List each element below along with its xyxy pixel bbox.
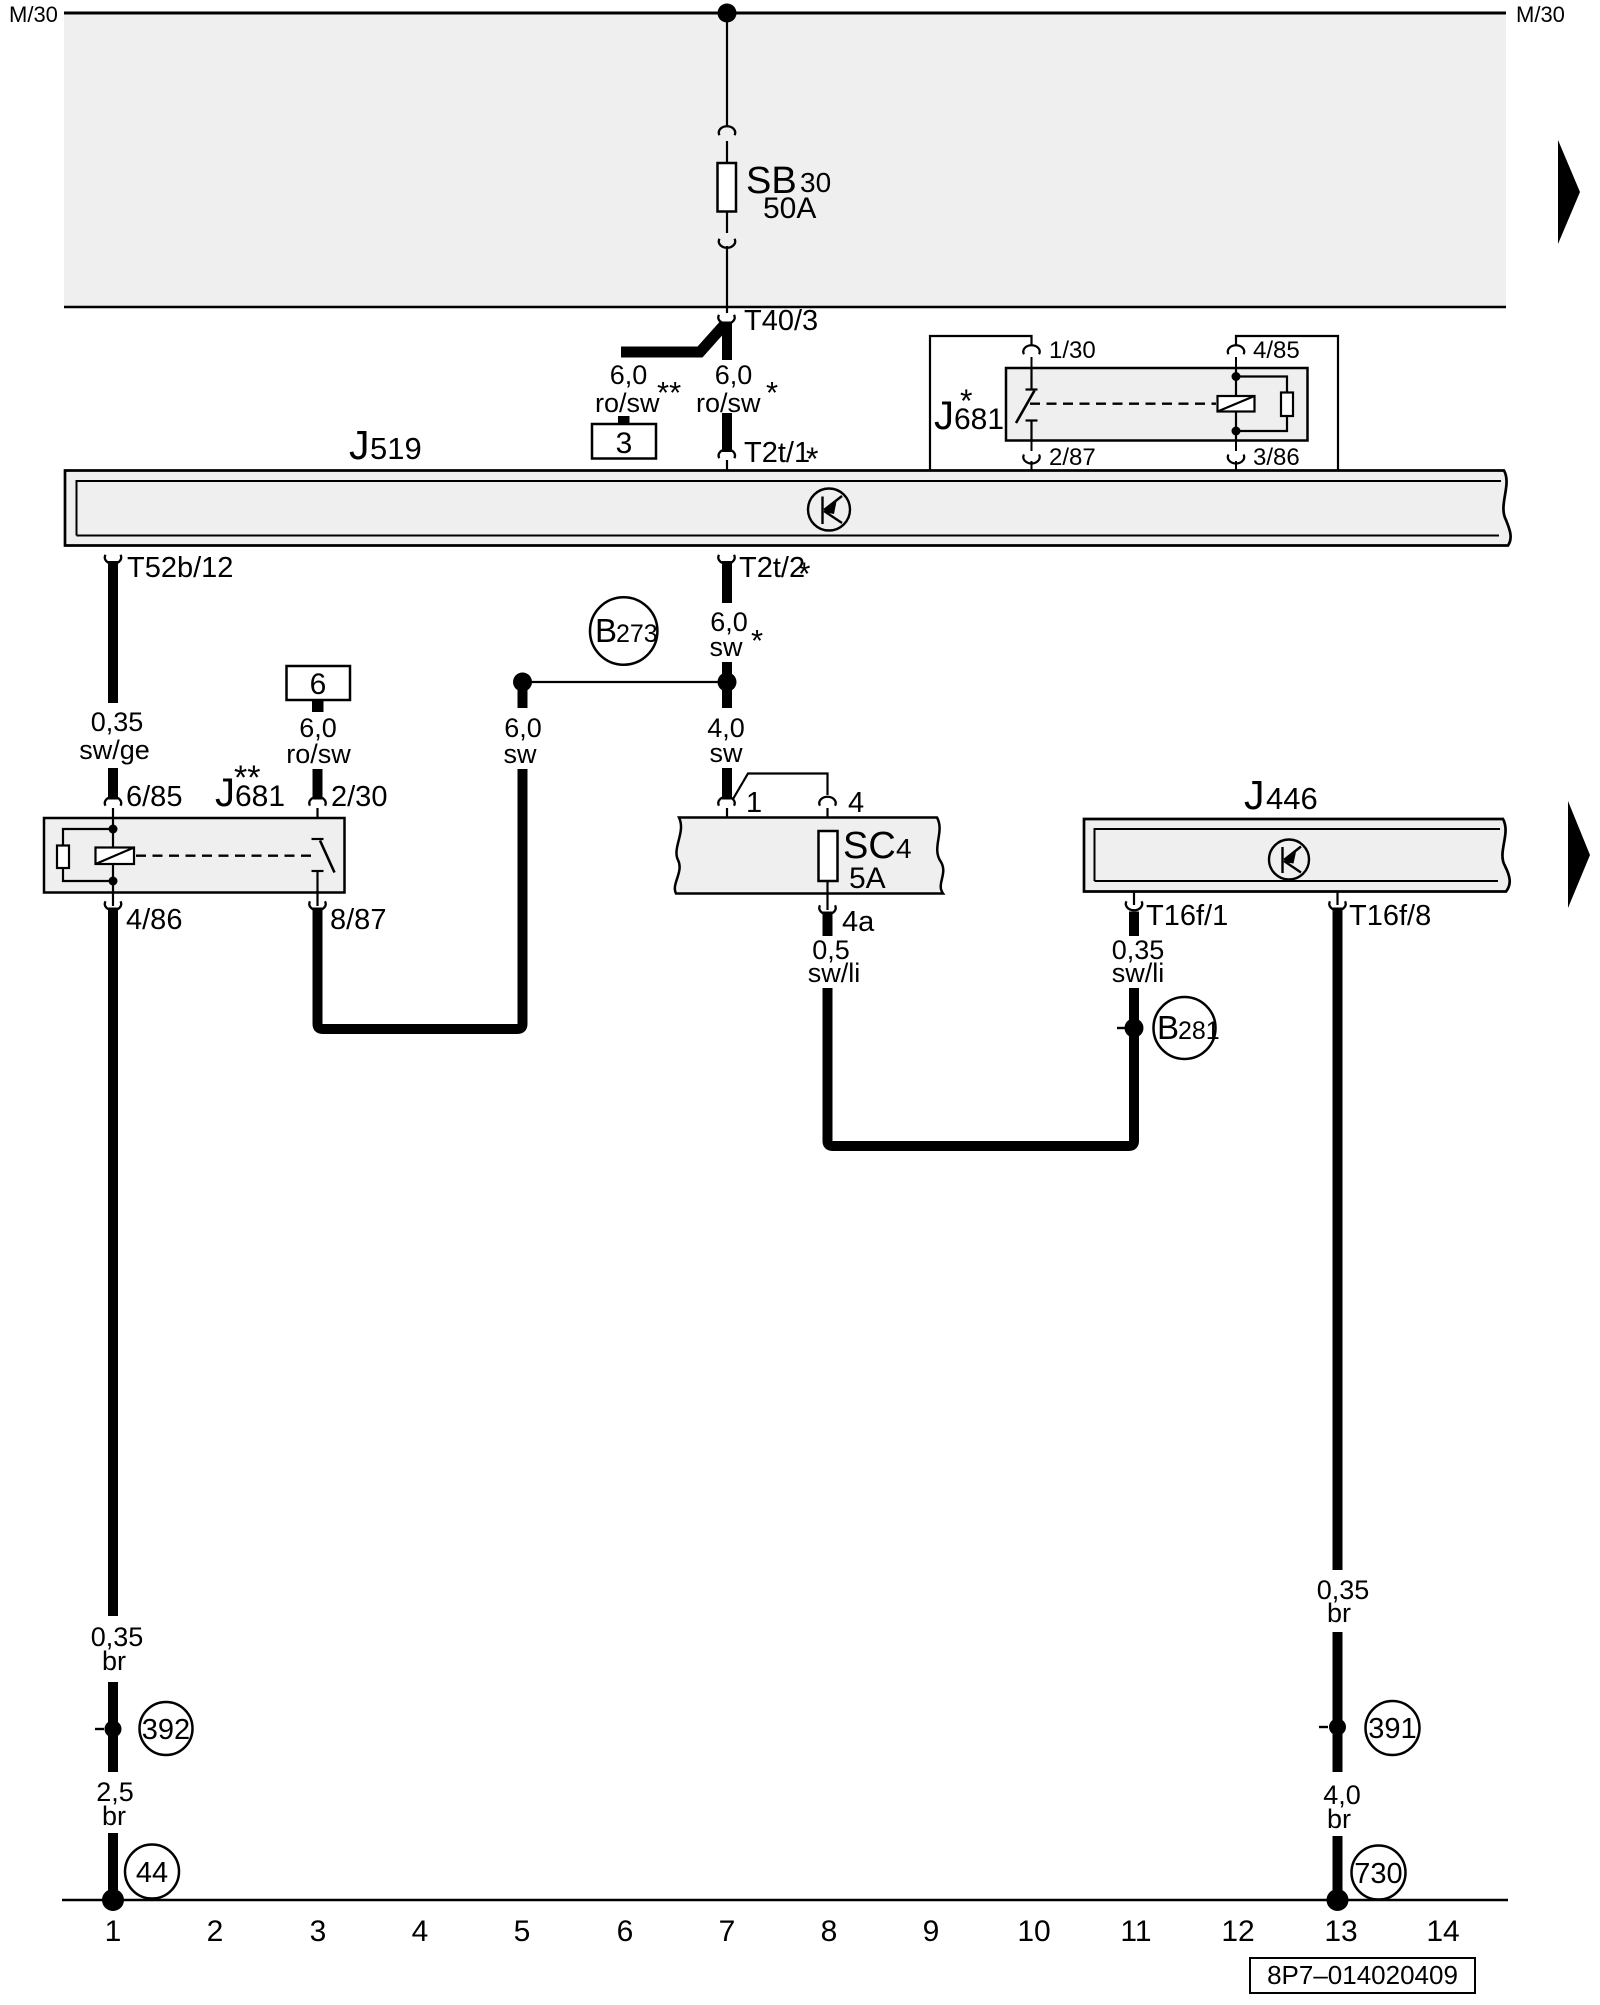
- junction dot 391: [1319, 1726, 1328, 1728]
- wire top rail M/30: [64, 12, 1506, 15]
- junction dot B281: [1117, 1027, 1126, 1029]
- svg-text:9: 9: [923, 1915, 940, 1948]
- K symbol in J519: [808, 489, 850, 531]
- wire 4,0 sw to fuse SC4: [722, 768, 732, 800]
- svg-text:1: 1: [746, 787, 762, 819]
- svg-text:J: J: [215, 771, 235, 815]
- svg-text:sw/li: sw/li: [1112, 958, 1165, 988]
- svg-text:br: br: [102, 1801, 126, 1831]
- svg-text:2: 2: [207, 1915, 224, 1948]
- svg-text:*: *: [766, 375, 778, 410]
- wire bracket pin1 to pin4: [733, 774, 828, 800]
- svg-text:br: br: [102, 1646, 126, 1676]
- section reference box 3: [592, 424, 656, 459]
- terminal T2t/1 arc: [719, 449, 735, 458]
- drawing number box: [1250, 1958, 1475, 1993]
- current track numbers: [105, 1915, 1460, 1948]
- wire 6,0 ro/sw* to T2t/1: [722, 413, 732, 452]
- svg-text:8P7–014020409: 8P7–014020409: [1267, 1960, 1458, 1990]
- wire 0,35 sw/ge upper: [108, 561, 118, 703]
- svg-text:*: *: [798, 556, 810, 592]
- wire 6,0 sw upper segment to junction: [518, 682, 528, 708]
- section reference box 6: [287, 666, 351, 700]
- svg-text:4a: 4a: [842, 906, 875, 938]
- fuse holder SC4 box: [675, 818, 943, 894]
- ground connection 392 circle: [140, 1702, 193, 1755]
- svg-text:ro/sw: ro/sw: [595, 388, 660, 418]
- svg-text:3: 3: [310, 1915, 327, 1948]
- svg-text:ro/sw: ro/sw: [286, 739, 351, 769]
- wire 0,35 sw/li upper stub: [1129, 912, 1139, 937]
- wire 0,5 sw/li upper: [823, 912, 833, 937]
- fuse SC4 body: [819, 831, 838, 881]
- pin 4/85 arc: [1228, 345, 1244, 354]
- svg-text:SC: SC: [843, 825, 896, 867]
- wire 0,35 br from 4/86 down: [108, 908, 118, 1617]
- svg-text:4: 4: [896, 833, 912, 864]
- relay J681 ** coil circuit: [57, 818, 134, 893]
- svg-text:44: 44: [136, 1857, 168, 1889]
- wire 6,0 ro/sw to 2/30: [313, 769, 323, 800]
- wire U-shape 8/87 to junction x523: [318, 769, 523, 1029]
- wire fuse to T40/3: [726, 246, 728, 313]
- svg-text:519: 519: [370, 431, 422, 466]
- junction dot left B273: [513, 673, 532, 692]
- wire 6,0 sw to junction: [722, 662, 732, 708]
- svg-text:392: 392: [142, 1714, 190, 1746]
- svg-text:8: 8: [821, 1915, 838, 1948]
- svg-text:1/30: 1/30: [1049, 337, 1096, 364]
- svg-text:6: 6: [310, 668, 327, 701]
- pin 6/85 arc: [105, 797, 121, 806]
- pin 1 arc SC4: [718, 797, 734, 806]
- svg-text:681: 681: [235, 780, 285, 813]
- junction dot bottom right: [1327, 1889, 1349, 1911]
- svg-text:sw: sw: [504, 739, 538, 769]
- wire from rail to fuse SB30: [726, 13, 728, 127]
- junction dot right: [718, 673, 737, 692]
- svg-text:8/87: 8/87: [330, 904, 386, 936]
- svg-text:14: 14: [1426, 1915, 1459, 1948]
- control unit J446 bar: [1084, 819, 1510, 892]
- svg-text:7: 7: [719, 1915, 736, 1948]
- svg-text:T16f/8: T16f/8: [1349, 900, 1431, 932]
- wire U-shape 4a to T16f/1: [828, 988, 1135, 1146]
- wire bottom rail: [62, 1899, 1508, 1902]
- wire T2t/1 into J519: [726, 460, 728, 471]
- fuse SB30 body: [718, 163, 737, 212]
- svg-text:J: J: [349, 422, 370, 468]
- wire to ground point 392: [108, 1682, 118, 1772]
- ground connection 391 circle: [1366, 1701, 1420, 1755]
- svg-text:730: 730: [1354, 1858, 1402, 1890]
- terminal T40/3 arc: [718, 315, 734, 324]
- svg-text:4/85: 4/85: [1253, 337, 1300, 364]
- svg-text:6/85: 6/85: [126, 781, 182, 813]
- gray potential band: [64, 13, 1506, 307]
- pin 2/87 arc: [1031, 441, 1033, 452]
- connection designation B273 circle: [590, 597, 657, 664]
- svg-text:T40/3: T40/3: [744, 305, 818, 337]
- svg-text:6: 6: [617, 1915, 634, 1948]
- control unit J519 onboard supply control unit bar: [65, 471, 1511, 546]
- junction top rail: [718, 4, 737, 23]
- svg-text:B: B: [595, 612, 617, 649]
- wire stub below box 6: [312, 700, 324, 712]
- ground connection 730 circle: [1352, 1846, 1406, 1900]
- wire 6,0 ro/sw* vertical below T40/3: [722, 322, 732, 361]
- svg-text:M/30: M/30: [9, 2, 58, 27]
- svg-text:sw/li: sw/li: [808, 958, 861, 988]
- svg-text:sw/ge: sw/ge: [79, 735, 150, 765]
- svg-text:T2t/1: T2t/1: [744, 437, 810, 469]
- terminal T2t/2 arc: [718, 555, 734, 564]
- svg-text:br: br: [1327, 1804, 1351, 1834]
- pin 4a arc: [826, 894, 828, 911]
- terminal T16f/8 arc: [1336, 892, 1338, 906]
- fuse clip bottom: [719, 239, 735, 248]
- terminal T16f/1 arc: [1133, 892, 1135, 906]
- relay J681 * dashed actuating line: [1030, 403, 1216, 405]
- pin 4/86 arc: [112, 893, 114, 907]
- K symbol in J446: [1269, 840, 1309, 880]
- wire stub into section box 3: [618, 416, 630, 424]
- svg-text:sw: sw: [710, 738, 744, 768]
- relay J681 * frame wire left: [930, 336, 1032, 471]
- svg-text:5A: 5A: [849, 862, 886, 895]
- relay J681 * coil: [1218, 368, 1294, 441]
- wire fuse body to clip: [726, 212, 728, 234]
- svg-text:10: 10: [1017, 1915, 1050, 1948]
- svg-text:5: 5: [514, 1915, 531, 1948]
- wire 0,35 br from T16f/8 down: [1333, 908, 1343, 1571]
- svg-text:B: B: [1157, 1009, 1179, 1046]
- svg-text:6,0: 6,0: [715, 360, 753, 390]
- svg-text:0,35: 0,35: [91, 707, 144, 737]
- svg-text:4: 4: [412, 1915, 429, 1948]
- svg-text:391: 391: [1368, 1713, 1416, 1745]
- svg-text:**: **: [657, 375, 681, 410]
- page continuation arrow top: [1558, 140, 1580, 244]
- junction dot 392: [95, 1728, 104, 1730]
- wire bottom edge of band: [64, 306, 1506, 309]
- svg-text:281: 281: [1178, 1017, 1220, 1045]
- wire thin junction link: [523, 681, 728, 683]
- pin 4 arc SC4: [819, 797, 835, 806]
- svg-text:sw: sw: [710, 632, 744, 662]
- junction dot bottom left: [102, 1889, 124, 1911]
- svg-text:2/30: 2/30: [331, 781, 387, 813]
- terminal T52b/12 arc: [105, 555, 121, 564]
- pin 8/87 arc: [316, 893, 318, 907]
- svg-text:446: 446: [1266, 781, 1318, 816]
- relay J681 * switch: [1016, 368, 1038, 441]
- svg-text:4/86: 4/86: [126, 904, 182, 936]
- svg-text:11: 11: [1120, 1915, 1151, 1948]
- relay J681 * box: [1006, 368, 1308, 441]
- fuse clip top: [719, 126, 735, 135]
- pin 2/30 arc: [309, 797, 325, 806]
- svg-text:3/86: 3/86: [1253, 444, 1300, 471]
- relay J681 ** box: [44, 818, 345, 893]
- svg-text:J: J: [1244, 772, 1265, 818]
- ground connection 44 circle: [125, 1845, 179, 1899]
- svg-text:12: 12: [1221, 1915, 1254, 1948]
- pin 1/30 arc: [1023, 345, 1039, 354]
- wire 0,35 sw/ge lower: [108, 768, 118, 800]
- relay J681 ** dashed actuating line: [136, 855, 314, 857]
- svg-text:*: *: [751, 623, 763, 658]
- svg-text:T52b/12: T52b/12: [127, 552, 233, 584]
- svg-text:6,0: 6,0: [610, 360, 648, 390]
- pin 3/86 arc: [1235, 441, 1237, 452]
- wire 6,0 sw below T2t/2: [722, 561, 732, 603]
- svg-text:T2t/2: T2t/2: [739, 552, 805, 584]
- svg-text:273: 273: [616, 620, 658, 648]
- svg-text:M/30: M/30: [1516, 2, 1565, 27]
- svg-text:1: 1: [105, 1915, 122, 1948]
- wire clip to fuse body: [726, 141, 728, 163]
- wire to ground point 391: [1333, 1632, 1343, 1772]
- wire branch 6,0 ro/sw** diagonal: [621, 324, 725, 352]
- svg-text:4: 4: [848, 787, 864, 819]
- svg-text:50A: 50A: [763, 192, 816, 225]
- svg-text:2/87: 2/87: [1049, 444, 1096, 471]
- svg-text:br: br: [1327, 1598, 1351, 1628]
- svg-text:T16f/1: T16f/1: [1146, 900, 1228, 932]
- connection designation B281 circle: [1154, 997, 1216, 1059]
- svg-text:J: J: [934, 394, 954, 438]
- wire 4,0 br to bottom rail: [1333, 1836, 1343, 1900]
- wire 2,5 br to bottom rail: [108, 1833, 118, 1900]
- relay J681 ** switch: [312, 839, 335, 893]
- svg-text:681: 681: [954, 403, 1004, 436]
- page continuation arrow middle: [1568, 801, 1590, 908]
- svg-text:3: 3: [616, 427, 633, 460]
- relay J681 * frame wire right: [1236, 336, 1338, 471]
- svg-text:13: 13: [1324, 1915, 1357, 1948]
